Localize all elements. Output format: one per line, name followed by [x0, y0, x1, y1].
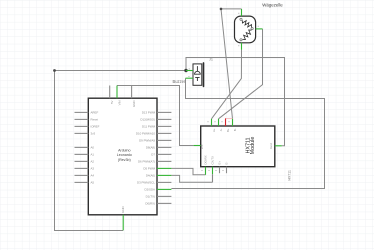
svg-text:D9 PWM/A9: D9 PWM/A9: [139, 139, 155, 143]
wire Arduino D4 to HX711 CK/TX: [171, 175, 212, 182]
wire Arduino VIN to HX711 Vcc: [117, 86, 194, 146]
svg-text:3v3: 3v3: [91, 132, 96, 136]
svg-text:D12(MISO): D12(MISO): [140, 118, 155, 122]
svg-text:D6 PWM(A7): D6 PWM(A7): [138, 160, 155, 164]
bendpoint dot on load cell top wire: [220, 8, 223, 11]
Arduino left pins (gray legs): [75, 112, 89, 182]
load cell (Wägezelle) body: [235, 9, 263, 50]
svg-text:Module: Module: [250, 137, 256, 155]
svg-text:D4(A6): D4(A6): [146, 174, 155, 178]
svg-text:D0(RX): D0(RX): [145, 202, 155, 206]
svg-text:B-: B-: [233, 128, 237, 131]
junction dot at buzzer pin1 node: [184, 69, 187, 72]
svg-text:VIN: VIN: [117, 101, 121, 106]
svg-text:J1: J1: [209, 58, 213, 62]
load cell pin number ticks: [238, 13, 259, 46]
svg-text:5V: 5V: [110, 100, 114, 104]
wire GND net: Arduino GND bottom to left rail up to buzzer junction: [55, 71, 187, 231]
Buzzer J1: [193, 62, 204, 87]
Arduino left pin labels: [91, 111, 100, 185]
svg-text:Arduino: Arduino: [118, 148, 130, 152]
svg-text:D11 PWM: D11 PWM: [142, 125, 156, 129]
load cell bottom pin leg: [241, 43, 243, 50]
piezo dome icon: [195, 71, 201, 74]
thick right bar: [203, 62, 205, 87]
svg-text:A+: A+: [212, 128, 216, 132]
svg-text:A-: A-: [219, 128, 223, 131]
svg-text:Gnd: Gnd: [269, 143, 273, 149]
svg-text:CK/TX: CK/TX: [211, 156, 215, 165]
svg-text:B+: B+: [226, 128, 230, 132]
HX711 module body: [201, 126, 275, 167]
load cell right pin leg: [256, 28, 263, 30]
svg-text:E+: E+: [218, 161, 222, 165]
wire red jumper B+ to B- node: [226, 118, 233, 120]
HX711 top pin labels: [212, 128, 237, 132]
svg-text:IOREF: IOREF: [91, 125, 100, 129]
svg-text:Leonardo: Leonardo: [117, 153, 132, 157]
Arduino top pins: [110, 86, 132, 99]
svg-text:Reset: Reset: [91, 118, 99, 122]
svg-text:Vcc: Vcc: [200, 144, 204, 149]
HX711 bottom pin labels: [204, 155, 229, 164]
HX711 top pin legs: [212, 118, 233, 126]
svg-text:A3: A3: [91, 167, 95, 171]
svg-text:D8(A8): D8(A8): [146, 146, 155, 150]
Arduino top pin labels: [110, 100, 136, 106]
Arduino bottom pin GND: [122, 215, 124, 231]
wire Arduino D5 to HX711 DO/RX: [171, 168, 205, 174]
wire buzzer pin2 to Arduino D2/SDA: [171, 78, 324, 188]
Arduino right pin labels: [136, 111, 156, 206]
node circles: [240, 18, 242, 20]
svg-text:Wägezelle: Wägezelle: [262, 3, 283, 8]
svg-text:D7: D7: [151, 153, 155, 157]
wire load cell bottom pin to HX711 A+: [212, 50, 242, 119]
svg-text:(Rev3b): (Rev3b): [118, 158, 131, 162]
svg-text:AREF: AREF: [91, 111, 99, 115]
svg-text:DO/RX: DO/RX: [204, 155, 208, 164]
HX711 pin number ticks: [201, 122, 229, 171]
svg-text:D2/SDA: D2/SDA: [145, 188, 156, 192]
svg-text:Buzzer: Buzzer: [173, 79, 186, 84]
Arduino U1 body: [88, 98, 157, 215]
buzzer pin number ticks: [188, 69, 190, 77]
svg-text:E-: E-: [225, 162, 229, 165]
HX711 right pin Gnd: [275, 145, 282, 147]
wire GND net: junction up over the top to HX711 Gnd: [186, 58, 285, 146]
buzzer pin 2 leg: [186, 77, 194, 79]
svg-text:A5: A5: [91, 181, 95, 185]
bendpoint dot at left rail corner: [53, 69, 56, 72]
svg-text:GND: GND: [121, 206, 125, 212]
svg-text:D10 PWM/A10: D10 PWM/A10: [136, 132, 156, 136]
svg-text:HX711: HX711: [287, 170, 291, 180]
HX711 bottom pin legs: [206, 167, 227, 183]
svg-text:A0: A0: [91, 146, 95, 150]
wire load cell right pin to HX711 A-: [219, 29, 263, 119]
svg-text:D1(TX): D1(TX): [146, 195, 155, 199]
buzzer pin 1 leg: [186, 70, 193, 72]
HX711 left pin Vcc: [194, 145, 201, 147]
Arduino right pins: [157, 112, 171, 203]
svg-text:A1: A1: [91, 153, 95, 157]
svg-text:GND: GND: [132, 101, 136, 107]
svg-text:D13 PWM: D13 PWM: [142, 111, 156, 115]
svg-text:A4: A4: [91, 174, 95, 178]
svg-text:D5 PWM: D5 PWM: [143, 167, 155, 171]
svg-text:D3 PWM/SCL: D3 PWM/SCL: [137, 181, 155, 185]
strain gauge resistor R1: [242, 20, 251, 27]
wire load cell top pin to HX711 B-: [221, 9, 242, 119]
T mark: [195, 77, 199, 79]
svg-text:A2: A2: [91, 160, 95, 164]
strain gauge resistor R2: [243, 30, 252, 40]
load cell top pin leg: [241, 9, 243, 16]
